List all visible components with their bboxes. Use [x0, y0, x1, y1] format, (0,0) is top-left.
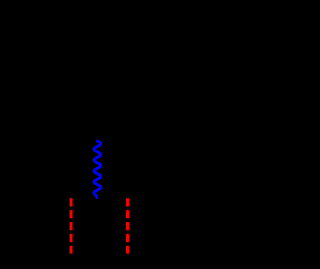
- figure canvas (black background): [0, 0, 208, 269]
- dashed quark line right (red): [126, 198, 129, 253]
- dashed quark line left (red): [70, 198, 73, 253]
- wavy boson propagator (blue photon/gluon line): [94, 141, 101, 198]
